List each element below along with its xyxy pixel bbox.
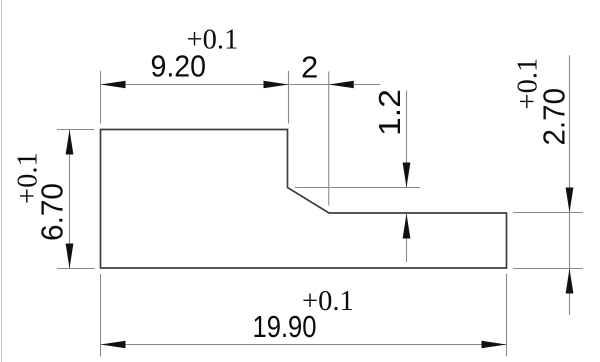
arrowhead 19.90 right bbox=[482, 341, 507, 349]
extension line right of 19.90 dim bbox=[506, 274, 508, 357]
svg-text:+0.1: +0.1 bbox=[302, 286, 354, 317]
tolerance text +0.1 (left, rotated) bbox=[13, 152, 44, 204]
svg-text:2: 2 bbox=[301, 50, 318, 85]
arrowhead 2.70 top (points down) bbox=[566, 188, 574, 213]
dimension text 19.90 bbox=[253, 309, 317, 344]
extension line right of 9.20 dim / left of 2 dim bbox=[288, 71, 290, 124]
svg-text:1.2: 1.2 bbox=[372, 89, 407, 136]
extension line for 1.2 dim (top reference) bbox=[295, 187, 421, 189]
6.70 dimension line bbox=[69, 130, 71, 269]
2.70 dimension line with outside tails bbox=[569, 55, 571, 315]
extension line right of 2 dim bbox=[328, 72, 330, 206]
svg-text:+0.1: +0.1 bbox=[13, 152, 44, 204]
arrowhead 6.70 top (points up) bbox=[66, 130, 74, 155]
dimension text 2 bbox=[301, 50, 318, 85]
dimension text 9.20 bbox=[151, 49, 207, 84]
arrowhead 1.2 top (points down) bbox=[403, 163, 411, 188]
19.90 dimension line bbox=[101, 344, 507, 346]
tolerance text +0.1 (bottom) bbox=[302, 286, 354, 317]
svg-text:+0.1: +0.1 bbox=[187, 25, 239, 56]
extension line top of 2.70 dim bbox=[513, 212, 583, 214]
arrowhead 2 right (outside) bbox=[329, 81, 354, 89]
extension line bottom of 6.70 dim bbox=[57, 268, 95, 270]
1.2 dimension line upper tail bbox=[406, 91, 408, 188]
part outline bbox=[101, 130, 507, 269]
tolerance text +0.1 (right, rotated) bbox=[513, 58, 544, 110]
left page border line bbox=[1, 0, 3, 362]
arrowhead 6.70 bottom (points down) bbox=[66, 244, 74, 269]
arrowhead 2.70 bottom (points up) bbox=[566, 269, 574, 294]
top dimension line (9.20 and 2) with outside tail bbox=[101, 84, 381, 86]
extension line left of 9.20 dim bbox=[100, 71, 102, 124]
arrowhead 9.20 right / 2 left bbox=[264, 81, 289, 89]
tolerance text +0.1 (top) bbox=[187, 25, 239, 56]
extension line left of 19.90 dim bbox=[100, 274, 102, 357]
dimension text 2.70 (rotated) bbox=[537, 88, 572, 146]
svg-text:+0.1: +0.1 bbox=[513, 58, 544, 110]
extension line bottom of 2.70 dim bbox=[513, 268, 583, 270]
arrowhead 19.90 left bbox=[101, 341, 126, 349]
dimension text 1.2 (rotated) bbox=[372, 89, 407, 136]
1.2 dimension line lower tail bbox=[406, 214, 408, 263]
arrowhead 1.2 bottom (points up) bbox=[403, 214, 411, 239]
dimension text 6.70 (rotated) bbox=[35, 183, 70, 241]
arrowhead 9.20 left bbox=[101, 81, 126, 89]
extension line top of 6.70 dim bbox=[57, 129, 95, 131]
